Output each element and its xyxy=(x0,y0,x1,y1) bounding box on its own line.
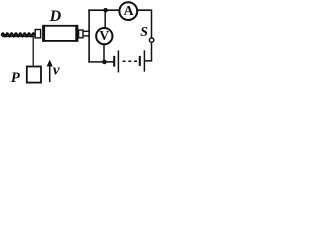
node junction bottom xyxy=(102,60,107,65)
lead bottom stub xyxy=(83,35,90,37)
wire bottom left xyxy=(88,61,113,63)
wire battery to switch xyxy=(145,43,152,61)
svg-text:S: S xyxy=(140,25,148,40)
battery cell 1 long plate xyxy=(117,50,119,72)
switch S contact xyxy=(149,38,153,42)
wire right down xyxy=(151,10,153,38)
wire top xyxy=(88,9,152,11)
svg-text:v: v xyxy=(53,63,60,79)
svg-text:A: A xyxy=(123,4,134,19)
ammeter A xyxy=(119,2,137,20)
svg-text:P: P xyxy=(11,70,20,86)
node junction top xyxy=(103,8,108,13)
timer D right collar xyxy=(79,30,83,38)
paper tape (coiled squiggle) xyxy=(2,33,36,36)
lead top stub xyxy=(83,30,90,32)
battery cell 2 long plate xyxy=(143,50,145,71)
svg-text:V: V xyxy=(99,28,109,43)
timer D body xyxy=(43,26,77,41)
battery dashed link xyxy=(123,60,138,62)
velocity arrow xyxy=(49,65,51,83)
svg-text:D: D xyxy=(49,8,62,25)
thread to P xyxy=(32,37,34,66)
timer D left collar xyxy=(35,30,40,38)
wire left bus xyxy=(88,9,90,62)
wire V stem bottom xyxy=(103,45,105,62)
battery cell 1 short plate xyxy=(113,56,115,67)
battery cell 2 short plate xyxy=(139,56,141,66)
wire V stem top xyxy=(104,10,106,28)
weight P box xyxy=(27,67,41,83)
voltmeter V xyxy=(96,28,112,44)
